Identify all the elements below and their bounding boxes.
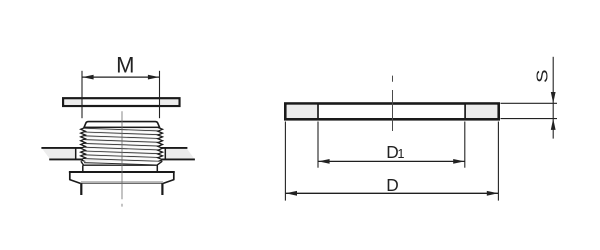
- washer on gland (side view, shaded ends): [63, 98, 179, 106]
- gland body below nut (cut off): [81, 183, 162, 195]
- centerline of washer section: [392, 76, 394, 131]
- centerline of gland: [121, 111, 123, 206]
- svg-text:S: S: [534, 69, 551, 82]
- gland thread cap: [84, 122, 160, 128]
- threaded body of gland: [81, 127, 163, 161]
- svg-text:M: M: [116, 52, 134, 77]
- hex nut of gland: [69, 171, 175, 183]
- sealing washer cross-section (shaded ends): [284, 102, 500, 120]
- dimension D1 (inner diameter): [318, 122, 465, 168]
- mounting panel, left portion (broken edge, shaded): [41, 148, 83, 160]
- svg-text:D: D: [386, 175, 398, 195]
- thread runout taper: [81, 161, 162, 165]
- collar between face and nut: [83, 165, 158, 172]
- mounting panel, right portion (broken edge, shaded): [161, 148, 195, 160]
- gland seating face line: [83, 164, 157, 166]
- dimension M (thread size): [82, 52, 160, 118]
- dimension D (outer diameter): [285, 122, 498, 201]
- dimension S (thickness): [501, 57, 558, 139]
- svg-text:1: 1: [397, 146, 404, 161]
